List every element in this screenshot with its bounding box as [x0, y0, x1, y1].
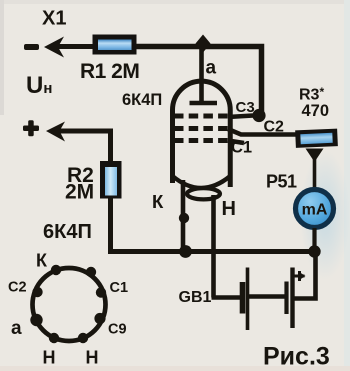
plus mark at battery — [295, 271, 306, 281]
svg-text:а: а — [11, 318, 22, 339]
svg-text:С9: С9 — [108, 322, 127, 338]
svg-text:2М: 2М — [65, 181, 94, 204]
svg-text:К: К — [36, 251, 48, 271]
wire R1 to top-right corner — [136, 47, 262, 115]
pin dot 2 — [86, 267, 96, 277]
svg-text:С1: С1 — [231, 139, 252, 157]
wire X1 arrow to R1 — [56, 44, 94, 49]
pin dot 3 (C2) — [32, 287, 42, 297]
svg-text:С1: С1 — [110, 280, 129, 296]
svg-text:R1 2М: R1 2М — [80, 60, 139, 83]
svg-text:mA: mA — [302, 202, 328, 219]
plus polarity mark — [23, 120, 39, 136]
svg-text:Р51: Р51 — [266, 172, 297, 192]
svg-text:6К4П: 6К4П — [122, 91, 162, 109]
battery cell 2 short plate — [284, 282, 288, 315]
wire R2 to bottom rail — [111, 198, 121, 252]
wire anode lead — [199, 46, 204, 101]
wire inter-cell connector — [249, 294, 286, 299]
battery cell 1 short plate — [240, 282, 246, 314]
resistor R2 — [100, 161, 122, 199]
battery GB1 — [212, 250, 316, 330]
minus polarity mark — [24, 44, 39, 50]
wire cathode K lead — [181, 180, 186, 251]
svg-text:С2: С2 — [264, 119, 285, 136]
wire grid C3 to node — [228, 116, 253, 118]
node dot K to rail — [179, 245, 192, 258]
svg-text:а: а — [206, 58, 217, 79]
wire battery right lead — [294, 250, 316, 299]
wire plus arrow to R2 — [58, 131, 111, 162]
svg-text:GB1: GB1 — [179, 289, 212, 306]
battery cell 2 long plate — [290, 268, 294, 329]
bottom rail wire — [108, 249, 317, 254]
node dot meter to rail — [308, 245, 320, 257]
battery cell 1 long plate — [246, 268, 250, 331]
pin dot 1 (K) — [51, 265, 61, 275]
node A junction dot (anode tap) — [196, 35, 211, 53]
wire heater H lead — [211, 195, 216, 298]
grid C2 dashed electrode — [174, 126, 228, 131]
pin dot 8 (H) — [78, 333, 88, 343]
pin dot 4 (C1) — [96, 287, 106, 297]
node dot on K lead — [179, 213, 189, 223]
arrow wire R3 to meter — [306, 149, 324, 163]
svg-text:Н: Н — [43, 348, 56, 368]
node dot C3/anode wire — [252, 109, 265, 122]
wire stub grid C1 — [228, 141, 244, 144]
pin dot 6 (C9) — [94, 313, 105, 324]
grid C3 dashed electrode — [174, 114, 228, 119]
svg-text:Н: Н — [86, 348, 99, 368]
resistor R1 — [93, 35, 137, 55]
svg-text:К: К — [152, 191, 164, 212]
resistor R3 — [295, 129, 338, 148]
wire meter to bottom rail — [312, 228, 316, 252]
wire battery left lead — [212, 295, 241, 300]
pin dot 7 (H) — [49, 333, 59, 343]
svg-text:6К4П: 6К4П — [43, 221, 92, 243]
svg-text:С2: С2 — [8, 280, 27, 296]
svg-text:470: 470 — [302, 102, 330, 120]
meter PA1 mA — [296, 190, 334, 228]
socket pinout circle 6К4П — [33, 268, 106, 341]
svg-text:Рис.3: Рис.3 — [263, 343, 330, 371]
arrow of terminal X1 (minus) — [44, 37, 64, 58]
svg-text:С3: С3 — [236, 99, 255, 116]
tube bottom arc — [173, 176, 231, 188]
tube base ellipse — [187, 188, 220, 199]
pin dot 5 (a) — [30, 314, 42, 326]
svg-text:X1: X1 — [42, 8, 66, 30]
anode plate — [190, 101, 218, 106]
arrow of terminal (plus) — [46, 122, 65, 142]
svg-text:Н: Н — [222, 198, 236, 220]
wire grid C2 to R3 — [228, 129, 296, 135]
tube U1 envelope 6К4П — [173, 81, 231, 187]
grid C1 dashed electrode — [174, 138, 228, 143]
